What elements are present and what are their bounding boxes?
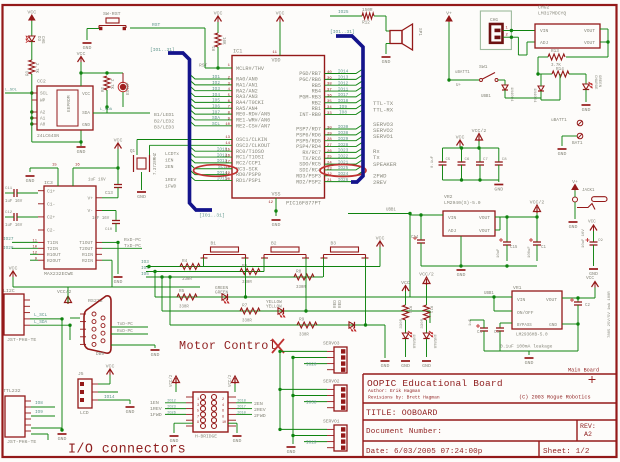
svg-text:J5: J5: [78, 371, 84, 377]
svg-text:IO38: IO38: [306, 401, 317, 406]
svg-text:R1: R1: [213, 46, 217, 52]
svg-text:SCL: SCL: [212, 122, 220, 127]
svg-text:GND: GND: [26, 178, 35, 184]
svg-text:IO23: IO23: [338, 149, 349, 154]
svg-text:SP1: SP1: [417, 28, 422, 36]
svg-text:16: 16: [75, 164, 80, 168]
svg-text:150R: 150R: [362, 8, 373, 13]
svg-text:27: 27: [327, 144, 332, 148]
svg-text:330R: 330R: [299, 334, 309, 338]
svg-text:GND: GND: [233, 438, 242, 444]
svg-text:V-: V-: [87, 208, 93, 214]
svg-text:SERVO2: SERVO2: [323, 379, 340, 385]
svg-text:LM317MDCYQ: LM317MDCYQ: [538, 11, 566, 17]
svg-text:RST: RST: [199, 63, 208, 69]
svg-text:1uF 16V: 1uF 16V: [92, 217, 110, 221]
svg-text:VIN: VIN: [540, 28, 549, 34]
svg-text:IO25: IO25: [338, 10, 349, 15]
svg-text:1REV: 1REV: [165, 177, 176, 183]
svg-text:10uF: 10uF: [497, 248, 501, 258]
svg-text:IO12: IO12: [338, 81, 349, 86]
svg-text:ADJ: ADJ: [540, 40, 549, 46]
svg-text:330R: 330R: [296, 286, 306, 290]
svg-text:IO9: IO9: [339, 105, 347, 110]
svg-text:JACK1: JACK1: [582, 189, 595, 193]
svg-text:24LC64SN: 24LC64SN: [37, 133, 59, 139]
svg-text:V+: V+: [446, 11, 452, 17]
svg-text:ON/OFF: ON/OFF: [517, 310, 534, 316]
svg-text:IO8: IO8: [35, 401, 43, 406]
svg-text:R2OUT: R2OUT: [47, 258, 61, 264]
svg-text:GND: GND: [170, 438, 179, 444]
svg-text:33: 33: [327, 112, 332, 116]
svg-text:T2OUT: T2OUT: [79, 246, 93, 252]
svg-text:C2+: C2+: [47, 215, 56, 221]
svg-text:UBB1: UBB1: [481, 95, 491, 99]
svg-text:IO26: IO26: [167, 412, 176, 416]
svg-text:11: 11: [32, 240, 37, 244]
svg-text:VCC/2: VCC/2: [530, 200, 545, 206]
svg-text:CHG: CHG: [40, 36, 44, 44]
svg-text:1uF 16V: 1uF 16V: [88, 179, 106, 183]
svg-text:R1IN: R1IN: [82, 252, 93, 258]
svg-text:1N5818: 1N5818: [432, 334, 436, 349]
svg-text:ADJ: ADJ: [448, 228, 457, 234]
svg-text:WP: WP: [40, 99, 46, 104]
svg-text:IO7: IO7: [212, 110, 220, 115]
svg-text:2.7K: 2.7K: [109, 79, 113, 90]
svg-text:VOUT: VOUT: [546, 297, 557, 303]
svg-text:2REV: 2REV: [254, 407, 266, 413]
svg-text:BAT1: BAT1: [572, 141, 583, 146]
svg-text:VCC: VCC: [214, 11, 223, 17]
svg-text:2FWD: 2FWD: [254, 413, 266, 419]
svg-text:PIC16F877PT: PIC16F877PT: [286, 201, 321, 207]
svg-text:1: 1: [197, 398, 199, 402]
svg-text:IO8: IO8: [339, 111, 347, 116]
svg-text:IO9: IO9: [35, 410, 43, 415]
svg-text:11: 11: [272, 51, 277, 55]
svg-text:2: 2: [222, 398, 224, 402]
svg-text:7.3728MHZ: 7.3728MHZ: [154, 152, 158, 175]
svg-text:SW-RST: SW-RST: [103, 11, 121, 17]
svg-text:VIN: VIN: [517, 297, 526, 303]
svg-text:28: 28: [327, 138, 332, 142]
svg-text:TTL232: TTL232: [3, 388, 21, 394]
svg-text:B2/LED2: B2/LED2: [154, 118, 174, 124]
svg-text:Revisions by: Brett Hagman: Revisions by: Brett Hagman: [368, 395, 440, 401]
svg-text:330R: 330R: [179, 306, 189, 310]
svg-text:IO27: IO27: [3, 237, 14, 242]
svg-text:SCL: SCL: [40, 92, 48, 97]
svg-text:C5: C5: [446, 158, 451, 162]
svg-text:RD1/PSP1: RD1/PSP1: [236, 178, 261, 184]
svg-text:GREEN: GREEN: [597, 75, 601, 88]
svg-text:VOUT: VOUT: [584, 40, 595, 46]
svg-text:GND: GND: [126, 409, 135, 415]
svg-text:IO29: IO29: [338, 137, 349, 142]
svg-text:25: 25: [327, 156, 332, 160]
svg-text:DB9: DB9: [96, 351, 105, 357]
svg-text:R8: R8: [296, 270, 302, 275]
svg-text:C1: C1: [541, 246, 546, 250]
svg-text:GND: GND: [272, 222, 281, 228]
svg-text:RED: RED: [338, 300, 343, 308]
svg-text:SDA: SDA: [212, 116, 220, 121]
svg-text:GND: GND: [77, 149, 86, 155]
svg-text:20: 20: [225, 178, 230, 182]
svg-text:GND: GND: [114, 279, 123, 285]
svg-text:CHG: CHG: [490, 17, 498, 23]
svg-text:6: 6: [222, 410, 224, 414]
svg-text:IO26: IO26: [338, 178, 349, 183]
svg-text:R11: R11: [429, 306, 433, 314]
svg-text:VCC: VCC: [114, 138, 123, 144]
svg-text:IO22: IO22: [338, 154, 349, 159]
svg-text:Document Number:: Document Number:: [366, 428, 442, 436]
svg-text:A2: A2: [584, 431, 592, 438]
svg-text:C2: C2: [585, 304, 590, 308]
svg-text:5: 5: [197, 410, 199, 414]
svg-text:TTL-RX: TTL-RX: [373, 107, 394, 114]
svg-text:GND: GND: [381, 363, 390, 369]
svg-text:RST: RST: [152, 22, 161, 28]
svg-text:13: 13: [225, 136, 230, 140]
svg-text:VCC: VCC: [27, 10, 36, 16]
svg-text:R3: R3: [27, 71, 31, 77]
svg-text:R2: R2: [102, 87, 106, 93]
svg-text:IO3: IO3: [212, 87, 220, 92]
svg-text:uBATT1: uBATT1: [455, 71, 470, 75]
svg-text:GND: GND: [287, 449, 296, 455]
svg-text:U+: U+: [456, 84, 461, 88]
svg-text:IO28: IO28: [338, 143, 349, 148]
svg-text:RD2/PSP2: RD2/PSP2: [296, 179, 321, 185]
svg-text:SERVO3: SERVO3: [323, 341, 340, 347]
svg-text:R1OUT: R1OUT: [47, 252, 61, 258]
svg-text:SERVO1: SERVO1: [323, 419, 340, 425]
svg-text:10: 10: [225, 123, 230, 127]
svg-text:C2-: C2-: [47, 228, 55, 234]
svg-text:B3: B3: [331, 241, 337, 247]
svg-text:GND: GND: [83, 45, 92, 51]
svg-text:2EN: 2EN: [254, 401, 263, 407]
svg-text:VCC/2: VCC/2: [57, 289, 72, 295]
svg-text:GND: GND: [569, 224, 578, 230]
svg-text:2EN: 2EN: [165, 164, 174, 170]
svg-text:LM2940(S)-5.0: LM2940(S)-5.0: [444, 200, 481, 206]
svg-text:[IO1..31]: [IO1..31]: [330, 29, 355, 35]
svg-text:C14: C14: [411, 236, 419, 240]
svg-text:C15: C15: [510, 246, 518, 250]
svg-text:C6: C6: [465, 158, 470, 162]
svg-text:IO10: IO10: [237, 412, 246, 416]
svg-text:16: 16: [225, 154, 230, 158]
svg-text:R2IN: R2IN: [82, 258, 93, 264]
svg-text:R5: R5: [179, 289, 185, 294]
svg-text:MAX232ECWE: MAX232ECWE: [44, 271, 73, 277]
svg-text:JST-PH8-TE: JST-PH8-TE: [7, 337, 36, 343]
svg-text:38: 38: [327, 83, 332, 87]
svg-text:L_SDA: L_SDA: [34, 320, 48, 325]
svg-text:VCC/2: VCC/2: [472, 128, 487, 134]
svg-text:Main Board: Main Board: [568, 368, 599, 374]
svg-text:VCC/2: VCC/2: [419, 272, 434, 278]
svg-text:1uF 16V: 1uF 16V: [5, 224, 23, 228]
svg-text:21: 21: [327, 179, 332, 183]
svg-text:GND: GND: [137, 194, 146, 200]
svg-text:LCDTx: LCDTx: [165, 151, 179, 157]
svg-text:1FWD: 1FWD: [150, 412, 162, 418]
svg-text:H-BRIDGE: H-BRIDGE: [195, 434, 217, 440]
svg-text:10K: 10K: [221, 37, 225, 45]
svg-text:1N4004: 1N4004: [532, 88, 536, 103]
svg-text:JST-PH6-TE: JST-PH6-TE: [7, 439, 36, 445]
svg-text:VCC: VCC: [276, 11, 285, 17]
svg-text:B1/LED1: B1/LED1: [154, 112, 174, 118]
svg-text:LM2936HB-5.0: LM2936HB-5.0: [516, 333, 548, 338]
svg-text:SDA: SDA: [82, 111, 90, 116]
svg-text:IO11: IO11: [338, 87, 349, 92]
svg-text:B2: B2: [271, 241, 277, 247]
svg-text:TxD-PC: TxD-PC: [117, 322, 133, 327]
svg-text:1N5818: 1N5818: [411, 334, 415, 349]
svg-text:VR1: VR1: [513, 285, 522, 291]
svg-text:(C) 2003 Rogue Robotics: (C) 2003 Rogue Robotics: [519, 395, 591, 401]
svg-text:34: 34: [327, 106, 332, 110]
svg-text:0.1uF: 0.1uF: [431, 155, 435, 168]
svg-text:TxD-PC: TxD-PC: [124, 243, 141, 249]
svg-text:GND: GND: [457, 272, 466, 278]
svg-text:TITLE: OOBOARD: TITLE: OOBOARD: [366, 409, 438, 418]
svg-text:IO3: IO3: [141, 260, 149, 265]
svg-text:V+: V+: [572, 179, 578, 185]
svg-text:2.7K: 2.7K: [34, 63, 38, 74]
svg-text:39: 39: [327, 77, 332, 81]
svg-text:3: 3: [197, 404, 199, 408]
svg-text:C10: C10: [105, 228, 113, 232]
svg-text:C1-: C1-: [47, 202, 55, 208]
svg-text:GND: GND: [525, 360, 534, 366]
svg-text:1EN: 1EN: [150, 400, 159, 406]
svg-text:7805 25V/5V 1mA 100R: 7805 25V/5V 1mA 100R: [607, 291, 612, 338]
svg-text:GND: GND: [151, 352, 160, 358]
svg-text:A2: A2: [40, 111, 46, 116]
svg-text:IO6: IO6: [212, 104, 220, 109]
svg-text:10: 10: [222, 421, 226, 425]
svg-text:0.1uF 100mA leakage: 0.1uF 100mA leakage: [500, 344, 553, 350]
svg-text:40: 40: [327, 71, 332, 75]
svg-text:RxD-PC: RxD-PC: [124, 237, 141, 243]
svg-text:CC2: CC2: [37, 79, 46, 85]
svg-text:VOUT: VOUT: [479, 215, 490, 221]
svg-text:Sheet: 1/2: Sheet: 1/2: [543, 448, 590, 456]
svg-text:GND: GND: [401, 363, 410, 369]
svg-text:GND: GND: [82, 123, 90, 128]
svg-text:330R: 330R: [421, 318, 425, 328]
svg-text:VOUT: VOUT: [479, 228, 490, 234]
svg-text:CHG2: CHG2: [538, 5, 549, 11]
svg-text:GND: GND: [494, 187, 503, 193]
svg-text:15: 15: [52, 164, 57, 168]
svg-text:330R: 330R: [182, 278, 192, 282]
svg-text:SPEAKER: SPEAKER: [373, 161, 397, 168]
svg-text:GND: GND: [558, 151, 567, 157]
svg-text:Date: 6/03/2005 07:24:00p: Date: 6/03/2005 07:24:00p: [366, 448, 483, 456]
svg-text:B1: B1: [211, 241, 217, 247]
svg-text:IO13: IO13: [338, 76, 349, 81]
svg-text:[IO1..31]: [IO1..31]: [199, 213, 225, 219]
svg-text:29: 29: [327, 132, 332, 136]
svg-text:GND: GND: [382, 59, 391, 65]
svg-text:IO20: IO20: [306, 363, 317, 368]
svg-text:R9: R9: [299, 318, 305, 323]
svg-text:LI2C: LI2C: [3, 288, 15, 294]
svg-text:VCC: VCC: [586, 275, 594, 281]
svg-text:C9: C9: [598, 239, 603, 243]
svg-text:R13: R13: [551, 49, 559, 54]
svg-text:V+: V+: [87, 196, 93, 202]
svg-text:R14: R14: [556, 67, 564, 72]
svg-text:1FWD: 1FWD: [165, 184, 176, 190]
svg-text:VCC: VCC: [9, 266, 18, 272]
svg-text:14: 14: [225, 142, 230, 146]
svg-text:1uF: 1uF: [469, 318, 473, 326]
svg-text:IO18: IO18: [338, 99, 349, 104]
svg-text:RxD-PC: RxD-PC: [117, 329, 133, 334]
svg-text:8: 8: [222, 415, 224, 419]
svg-text:IC3: IC3: [44, 180, 53, 186]
svg-text:R6: R6: [242, 264, 248, 269]
svg-text:1N4004: 1N4004: [509, 87, 513, 102]
svg-text:SERVO1: SERVO1: [373, 133, 394, 140]
svg-text:INT-RB0: INT-RB0: [299, 112, 321, 118]
svg-text:4: 4: [222, 404, 224, 408]
svg-text:100uF: 100uF: [528, 246, 532, 258]
svg-text:IO5: IO5: [212, 99, 220, 104]
svg-text:L_SCL: L_SCL: [34, 313, 48, 318]
svg-text:GND: GND: [582, 107, 591, 113]
svg-text:GND: GND: [549, 323, 557, 328]
svg-text:C8: C8: [502, 158, 507, 162]
svg-text:9: 9: [197, 421, 199, 425]
svg-text:C3: C3: [494, 331, 499, 335]
svg-text:IO14: IO14: [338, 70, 349, 75]
svg-text:IC1: IC1: [233, 49, 242, 55]
svg-text:L_SDL: L_SDL: [5, 89, 18, 93]
svg-text:IO5: IO5: [141, 272, 149, 277]
svg-text:VIN: VIN: [448, 215, 457, 221]
svg-text:EEPROM: EEPROM: [66, 95, 72, 112]
svg-text:R12: R12: [362, 21, 370, 26]
svg-text:C13: C13: [105, 191, 113, 196]
svg-text:IO14: IO14: [104, 395, 115, 400]
svg-text:IO25: IO25: [338, 166, 349, 171]
svg-text:7: 7: [197, 415, 199, 419]
svg-text:VCC: VCC: [106, 364, 115, 370]
svg-text:1uF 16V: 1uF 16V: [5, 200, 23, 204]
svg-text:I/O connectors: I/O connectors: [68, 443, 186, 458]
svg-text:1REV: 1REV: [150, 406, 162, 412]
svg-text:BYPASS: BYPASS: [517, 324, 532, 328]
svg-text:SW1: SW1: [479, 64, 488, 70]
svg-text:Motor Control: Motor Control: [179, 339, 276, 353]
svg-text:10: 10: [32, 246, 37, 250]
svg-text:A1: A1: [40, 117, 46, 122]
svg-text:330R: 330R: [242, 281, 252, 285]
svg-text:12: 12: [32, 252, 37, 256]
svg-text:IO4: IO4: [212, 93, 220, 98]
svg-text:R10: R10: [408, 306, 412, 314]
svg-text:REV:: REV:: [580, 423, 596, 430]
svg-text:C11: C11: [5, 187, 13, 191]
svg-text:VCC: VCC: [456, 135, 465, 141]
svg-text:D3: D3: [36, 36, 40, 42]
svg-text:36: 36: [327, 94, 332, 98]
svg-text:IO38: IO38: [338, 131, 349, 136]
svg-text:Author: Erik Hagman: Author: Erik Hagman: [368, 388, 421, 394]
svg-text:17: 17: [225, 160, 230, 164]
svg-text:30: 30: [327, 126, 332, 130]
svg-text:VCC: VCC: [588, 220, 596, 225]
svg-text:R4: R4: [182, 259, 188, 264]
svg-text:VSS: VSS: [271, 192, 280, 198]
svg-text:uBATT1: uBATT1: [551, 118, 567, 123]
svg-text:C7: C7: [483, 158, 488, 162]
svg-text:T1OUT: T1OUT: [79, 240, 93, 246]
svg-text:L_SDA: L_SDA: [100, 108, 113, 112]
svg-text:35: 35: [327, 100, 332, 104]
svg-text:IO2: IO2: [212, 81, 220, 86]
svg-text:B3/LED3: B3/LED3: [154, 125, 174, 131]
svg-text:LCD: LCD: [80, 410, 89, 416]
svg-text:330R: 330R: [400, 318, 404, 328]
svg-text:Tx: Tx: [373, 154, 380, 161]
svg-text:10uF 16V: 10uF 16V: [582, 229, 586, 248]
svg-text:37: 37: [327, 88, 332, 92]
svg-text:GND: GND: [422, 363, 431, 369]
svg-text:RE2-CS#/AN7: RE2-CS#/AN7: [236, 123, 270, 129]
svg-text:26: 26: [327, 150, 332, 154]
svg-text:VCC: VCC: [376, 236, 385, 242]
svg-text:VCC: VCC: [82, 92, 90, 97]
svg-text:2REV: 2REV: [373, 179, 387, 186]
svg-text:T1IN: T1IN: [47, 240, 58, 246]
svg-text:Q1: Q1: [130, 150, 136, 154]
svg-text:A0: A0: [40, 123, 46, 128]
svg-text:IO19: IO19: [306, 441, 317, 446]
svg-text:23: 23: [327, 167, 332, 171]
svg-text:1EN: 1EN: [165, 158, 174, 164]
svg-text:VDD: VDD: [271, 58, 280, 64]
svg-text:UBB1: UBB1: [386, 209, 396, 213]
svg-text:C12: C12: [5, 211, 13, 215]
svg-text:T2IN: T2IN: [47, 246, 58, 252]
svg-text:VCC: VCC: [77, 51, 86, 57]
svg-text:ESTOP: ESTOP: [127, 82, 131, 95]
svg-text:VOUT: VOUT: [584, 28, 595, 34]
svg-text:GND: GND: [58, 436, 67, 442]
svg-text:IO17: IO17: [338, 93, 349, 98]
svg-text:MCLR#/THV: MCLR#/THV: [236, 66, 265, 72]
svg-text:C4: C4: [477, 331, 482, 335]
svg-text:VR2: VR2: [444, 194, 453, 200]
svg-text:UBB1: UBB1: [484, 292, 494, 296]
svg-text:330R: 330R: [242, 320, 252, 324]
svg-text:IO1: IO1: [212, 75, 220, 80]
svg-text:12: 12: [268, 201, 273, 205]
svg-text:R7: R7: [242, 304, 248, 309]
